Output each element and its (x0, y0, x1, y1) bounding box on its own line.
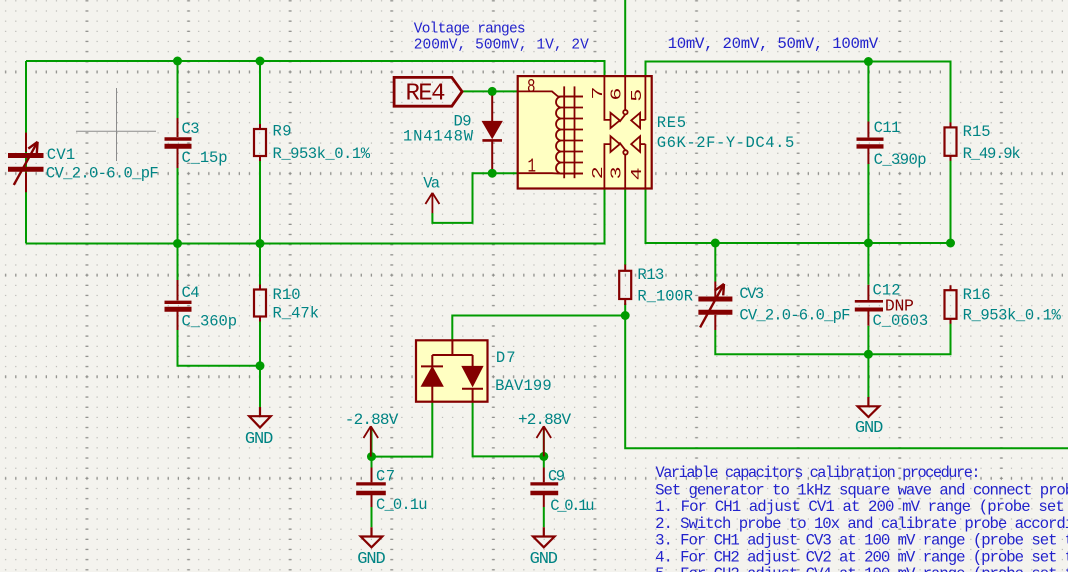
svg-text:C_15p: C_15p (182, 149, 228, 167)
svg-text:GND: GND (357, 550, 385, 569)
svg-text:Set generator to 1kHz square w: Set generator to 1kHz square wave and co… (655, 481, 1068, 499)
svg-text:R_953k_0.1%: R_953k_0.1% (273, 145, 371, 163)
svg-text:GND: GND (530, 550, 558, 569)
svg-text:R_47k: R_47k (273, 305, 320, 323)
svg-text:3: 3 (608, 166, 625, 179)
svg-text:R9: R9 (273, 123, 292, 141)
svg-text:BAV199: BAV199 (495, 377, 552, 395)
svg-text:5: 5 (629, 89, 646, 102)
svg-text:CV_2.0-6.0_pF: CV_2.0-6.0_pF (739, 307, 850, 325)
svg-text:R_49.9k: R_49.9k (963, 145, 1021, 163)
svg-text:R13: R13 (637, 266, 664, 284)
svg-text:R16: R16 (963, 286, 991, 304)
svg-text:Variable capacitors calibratio: Variable capacitors calibration procedur… (656, 464, 981, 482)
svg-text:R10: R10 (273, 286, 301, 304)
svg-text:R_100R: R_100R (637, 288, 693, 306)
svg-text:Va: Va (423, 175, 440, 193)
svg-text:RE5: RE5 (657, 114, 686, 132)
svg-text:1: 1 (528, 156, 537, 178)
svg-text:1. For CH1 adjust CV1 at 200 m: 1. For CH1 adjust CV1 at 200 mV range (p… (655, 498, 1068, 516)
svg-text:R15: R15 (963, 123, 991, 141)
svg-text:C11: C11 (874, 119, 901, 137)
svg-text:CV3: CV3 (739, 285, 764, 303)
svg-text:C_360p: C_360p (182, 313, 238, 331)
svg-text:D7: D7 (496, 349, 516, 367)
svg-text:200mV, 500mV, 1V, 2V: 200mV, 500mV, 1V, 2V (414, 38, 589, 54)
svg-text:2: 2 (590, 166, 607, 179)
svg-text:C3: C3 (182, 120, 200, 138)
svg-text:5. For CH2 adjust CV4 at 100 m: 5. For CH2 adjust CV4 at 100 mV range (p… (655, 565, 1068, 572)
svg-text:DNP: DNP (885, 296, 914, 315)
svg-text:6: 6 (608, 88, 625, 101)
svg-text:C7: C7 (376, 468, 395, 486)
svg-text:C9: C9 (548, 467, 565, 485)
svg-text:C4: C4 (182, 284, 200, 302)
svg-text:4. For CH2 adjust CV2 at 200 m: 4. For CH2 adjust CV2 at 200 mV range (p… (655, 549, 1068, 567)
svg-text:7: 7 (590, 87, 607, 100)
svg-text:C_0.1u: C_0.1u (376, 496, 428, 514)
svg-text:GND: GND (855, 419, 883, 438)
svg-text:+2.88V: +2.88V (518, 411, 571, 429)
svg-text:2. Switch probe to 10x and cal: 2. Switch probe to 10x and calibrate pro… (655, 515, 1068, 533)
svg-text:4: 4 (629, 167, 646, 180)
svg-text:G6K-2F-Y-DC4.5: G6K-2F-Y-DC4.5 (657, 134, 795, 152)
svg-text:Voltage ranges: Voltage ranges (414, 22, 526, 38)
svg-text:1N4148W: 1N4148W (403, 127, 474, 145)
svg-text:R_953k_0.1%: R_953k_0.1% (963, 307, 1062, 325)
svg-text:-2.88V: -2.88V (345, 411, 399, 429)
svg-text:RE4: RE4 (406, 81, 446, 108)
svg-text:GND: GND (245, 430, 273, 449)
svg-text:3. For CH1 adjust CV3 at 100 m: 3. For CH1 adjust CV3 at 100 mV range (p… (655, 532, 1068, 550)
svg-text:C_390p: C_390p (874, 151, 927, 169)
svg-text:C_0.1u: C_0.1u (550, 497, 594, 515)
svg-text:CV_2.0-6.0_pF: CV_2.0-6.0_pF (46, 164, 159, 182)
svg-text:10mV, 20mV, 50mV, 100mV: 10mV, 20mV, 50mV, 100mV (668, 35, 879, 53)
svg-text:8: 8 (527, 76, 536, 98)
svg-text:CV1: CV1 (47, 146, 75, 164)
